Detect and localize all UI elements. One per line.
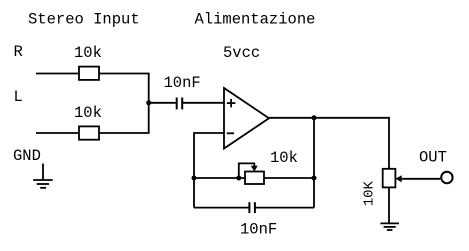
ground symbol right <box>380 223 399 230</box>
svg-text:10K: 10K <box>362 180 378 206</box>
op-amp - pin symbol <box>227 132 234 134</box>
svg-text:10k: 10k <box>74 104 102 122</box>
wire C1 to op-amp + input <box>182 102 224 104</box>
P1 wiper arrowhead <box>395 175 401 182</box>
wire down to volume pot P1 <box>388 117 390 169</box>
potentiometer P1 10K body <box>383 169 396 188</box>
trimmer RV1 10k body <box>245 172 264 185</box>
svg-text:R: R <box>14 43 23 61</box>
svg-text:GND: GND <box>13 147 41 165</box>
svg-text:OUT: OUT <box>419 149 447 167</box>
node C junction dot <box>312 176 317 181</box>
wire R input <box>36 73 79 75</box>
wire R1 to node A <box>99 73 150 75</box>
wire trimmer to node C <box>264 177 314 179</box>
resistor R2 10k <box>79 126 99 139</box>
svg-text:10nF: 10nF <box>164 74 201 92</box>
svg-text:10k: 10k <box>270 149 298 167</box>
wire L input <box>36 132 79 134</box>
trimmer wiper arrowhead <box>251 166 258 172</box>
trimmer wiper link <box>239 163 255 178</box>
capacitor C2 10nF <box>249 202 255 213</box>
wire mixing bus vertical <box>148 74 150 134</box>
svg-text:L: L <box>14 88 23 106</box>
wire node B to trimmer <box>194 177 245 179</box>
svg-text:10nF: 10nF <box>240 221 277 239</box>
wire node A to C1 <box>149 102 177 104</box>
svg-text:Alimentazione: Alimentazione <box>195 11 316 29</box>
wire bottom feedback left <box>194 207 249 209</box>
wire inverting input feedback drop <box>194 133 224 208</box>
wire output bus vertical <box>313 118 315 208</box>
node B junction dot <box>192 176 197 181</box>
ground symbol left <box>33 164 53 188</box>
node D junction dot (output) <box>312 115 317 120</box>
svg-text:10k: 10k <box>74 44 102 62</box>
op-amp U1 <box>224 88 269 149</box>
svg-text:5vcc: 5vcc <box>223 44 260 62</box>
wire R2 to node A <box>99 132 150 134</box>
wire op-amp output <box>269 117 389 119</box>
wire pot to ground <box>388 187 390 223</box>
capacitor C1 10nF <box>177 98 183 110</box>
resistor R1 10k <box>79 67 99 80</box>
svg-text:Stereo Input: Stereo Input <box>28 11 140 29</box>
node wiper junction dot <box>236 176 241 181</box>
wire bottom feedback right <box>255 207 314 209</box>
wire wiper to output terminal <box>402 178 441 180</box>
op-amp + pin symbol <box>227 99 236 107</box>
output terminal circle <box>441 172 452 183</box>
node A junction dot <box>146 100 151 105</box>
